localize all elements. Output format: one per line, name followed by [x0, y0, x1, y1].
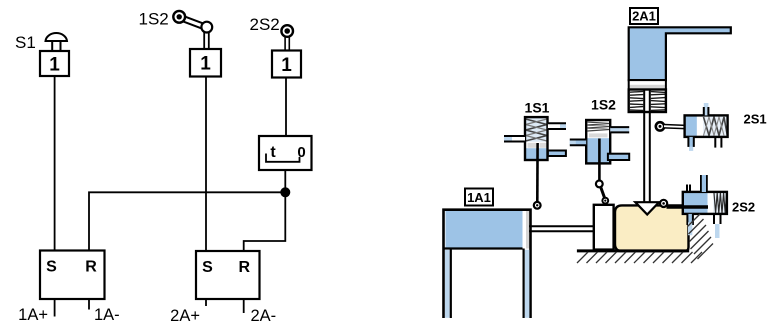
valve 2S2 lever: [667, 205, 709, 208]
svg-text:S1: S1: [15, 33, 36, 52]
svg-text:2S1: 2S1: [744, 112, 767, 127]
svg-text:1: 1: [200, 54, 211, 75]
svg-text:0: 0: [297, 144, 305, 161]
valve 1S1 plunger rod: [536, 143, 539, 201]
svg-text:1S2: 1S2: [139, 10, 169, 29]
contact box 2S2 "1": [272, 51, 301, 78]
svg-text:2S2: 2S2: [732, 200, 755, 215]
valve 1S2 lever joint: [596, 181, 603, 188]
contact box 1S2 "1": [190, 49, 221, 77]
cylinder 2A1 piston band: [629, 80, 666, 89]
valve 2S2 top small stub: [687, 185, 690, 193]
valve 1S1 left port: [504, 136, 525, 142]
contact box S1 "1": [40, 51, 69, 76]
valve 1S2 plunger rod: [598, 139, 601, 182]
valve 2S2 body: [683, 192, 727, 214]
svg-text:1A-: 1A-: [94, 306, 120, 324]
cylinder 2A1 body with arm: [629, 27, 731, 80]
wire S1 to left SR S input: [54, 76, 56, 251]
rod tip V in workpiece notch: [635, 202, 659, 214]
valve 1S2 roller: [602, 198, 608, 204]
output stub 2A+: [205, 299, 207, 306]
svg-text:1S2: 1S2: [591, 97, 616, 113]
wire 1S2 to right SR S input: [205, 77, 207, 252]
valve 1S1 right bottom port: [548, 151, 566, 157]
svg-text:1A+: 1A+: [18, 306, 48, 324]
valve 2S2 bottom blue stub: [687, 214, 693, 235]
wire junction to right SR R input: [244, 192, 286, 251]
valve 1S2 right bottom port: [608, 154, 629, 160]
valve 2S1 top stub: [704, 103, 709, 115]
valve 1S2 right top port: [610, 127, 629, 132]
cylinder 1A1 label box: [465, 189, 493, 206]
valve 2S1 bottom white stub: [715, 137, 721, 148]
valve 1S1 roller: [534, 202, 541, 209]
svg-text:2A1: 2A1: [632, 9, 656, 24]
valve 1S1 right top port: [548, 123, 566, 129]
svg-text:S: S: [46, 259, 57, 276]
svg-text:R: R: [239, 259, 251, 276]
valve 2S2 roller: [660, 200, 667, 207]
svg-text:R: R: [85, 259, 97, 276]
timer block t0: [259, 136, 312, 170]
SR flip-flop box 1: [40, 251, 105, 300]
valve 2S1 lever: [664, 126, 695, 127]
cylinder 2A1 label box: [630, 8, 658, 24]
roller head 2S2: [281, 25, 293, 50]
cylinder 1A1 piston rod: [529, 226, 594, 231]
output stub 2A-: [243, 299, 245, 313]
wall hatching right of workpiece: [688, 214, 714, 259]
valve 1S1: [525, 117, 548, 160]
wire timer to junction: [284, 170, 286, 192]
valve 1S2 left port: [570, 140, 586, 146]
svg-text:1: 1: [281, 55, 292, 76]
svg-text:S: S: [202, 259, 213, 276]
valve 2S2 bottom white stub: [714, 214, 721, 238]
output stub 1A+: [54, 299, 56, 317]
valve 2S1 roller: [656, 122, 664, 130]
svg-text:2A+: 2A+: [170, 307, 200, 325]
svg-text:2S2: 2S2: [250, 15, 280, 34]
svg-text:1S1: 1S1: [525, 100, 550, 116]
valve 2S2 top blue stub: [701, 175, 707, 192]
svg-text:2A-: 2A-: [251, 307, 277, 325]
ground line: [577, 249, 689, 252]
cylinder 2A1 piston rod: [644, 90, 650, 202]
cylinder 1A1 body: [444, 210, 531, 318]
pusher block: [594, 205, 614, 250]
cylinder 2A1 spring chamber: [629, 90, 666, 113]
valve 1S2: [586, 120, 610, 163]
valve 2S1 bottom blue stub: [688, 137, 693, 151]
SR flip-flop box 2: [196, 251, 260, 299]
svg-text:1A1: 1A1: [467, 190, 491, 205]
svg-text:1: 1: [49, 55, 60, 76]
cylinder 1A1 barrel walls: [444, 249, 530, 319]
junction node: [280, 187, 290, 197]
wire 2S2 to timer: [285, 78, 287, 137]
output stub 1A-: [88, 299, 90, 310]
valve 2S1 body: [685, 115, 728, 136]
svg-text:t: t: [270, 144, 276, 161]
pushbutton S1 mushroom head: [46, 33, 68, 51]
ground hatching: [577, 252, 702, 263]
roller lever head 1S2: [173, 11, 212, 50]
wire junction to left SR R input: [89, 192, 285, 250]
workpiece: [615, 205, 689, 251]
valve 1S2 idle-return link: [601, 187, 605, 199]
